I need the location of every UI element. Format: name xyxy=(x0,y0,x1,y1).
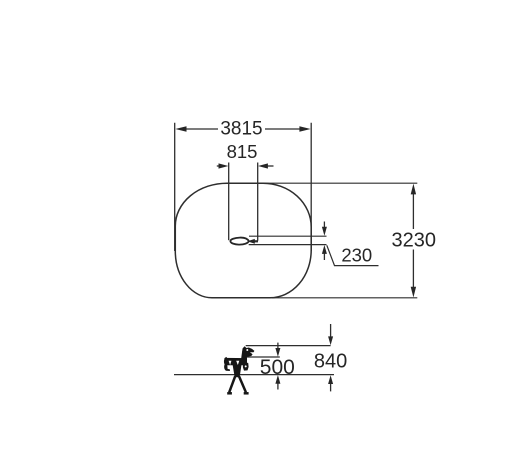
svg-text:500: 500 xyxy=(260,356,295,379)
svg-text:3815: 3815 xyxy=(220,119,262,140)
svg-text:230: 230 xyxy=(341,245,372,266)
svg-text:3230: 3230 xyxy=(392,229,437,251)
svg-text:815: 815 xyxy=(227,141,258,162)
svg-text:840: 840 xyxy=(314,351,347,373)
